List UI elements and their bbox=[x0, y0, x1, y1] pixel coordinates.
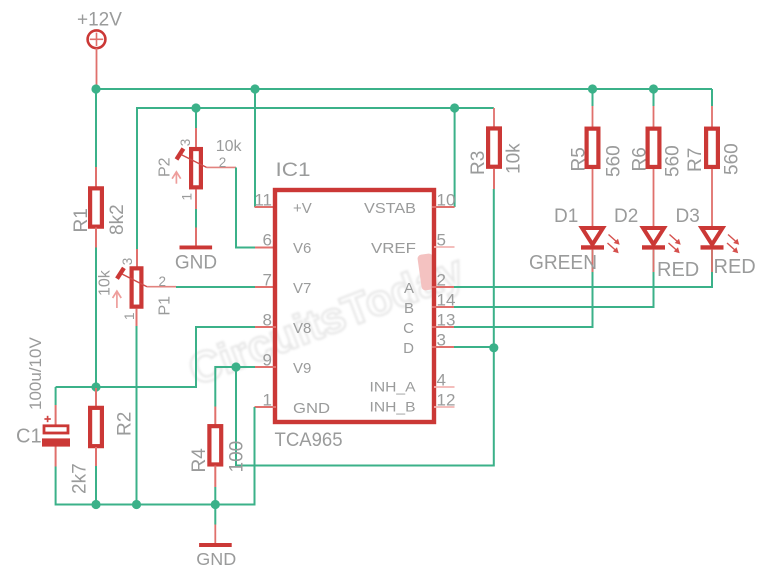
node junction P2 top bbox=[191, 103, 200, 112]
pin stub R4 bottom bbox=[214, 466, 216, 488]
svg-text:560: 560 bbox=[663, 145, 684, 177]
pin stub P2 pin 3 bbox=[195, 128, 197, 148]
svg-text:100: 100 bbox=[227, 441, 248, 473]
wire rail to R1 bbox=[95, 89, 97, 167]
wire V9 to junction bbox=[236, 366, 255, 368]
svg-text:R7: R7 bbox=[685, 148, 706, 172]
node junction rail-R5 bbox=[588, 84, 597, 93]
resistor R6 bbox=[648, 129, 660, 167]
svg-text:D1: D1 bbox=[554, 206, 578, 227]
svg-text:P2: P2 bbox=[157, 157, 174, 177]
wire V9 junction to R4 bbox=[215, 367, 236, 407]
svg-text:1: 1 bbox=[179, 193, 194, 201]
svg-text:D: D bbox=[403, 340, 414, 357]
svg-text:A: A bbox=[404, 280, 414, 297]
svg-text:R4: R4 bbox=[189, 448, 210, 473]
svg-text:+12V: +12V bbox=[77, 9, 122, 30]
svg-text:V7: V7 bbox=[293, 280, 311, 297]
svg-text:VREF: VREF bbox=[371, 240, 416, 257]
wire D2 cathode down bbox=[653, 250, 655, 308]
svg-text:R5: R5 bbox=[569, 147, 590, 171]
svg-text:INH_B: INH_B bbox=[370, 399, 416, 415]
potentiometer P1 bbox=[132, 268, 142, 306]
ground symbol bottom bbox=[199, 543, 232, 547]
potentiometer P2 bbox=[191, 149, 201, 187]
node junction rail-R1 bbox=[91, 84, 100, 93]
pin stub IC V9 pin 9 bbox=[255, 366, 276, 368]
pin stub INH_A pin 4 (n.c.) bbox=[434, 386, 455, 388]
pin stub R4 top bbox=[214, 407, 216, 426]
svg-text:R6: R6 bbox=[630, 147, 651, 171]
LED D2 bbox=[643, 228, 664, 245]
svg-text:B: B bbox=[404, 300, 414, 317]
wire +12V rail bbox=[95, 88, 712, 90]
svg-text:10k: 10k bbox=[216, 138, 243, 155]
resistor R1 bbox=[90, 188, 102, 226]
node junction rail-+V bbox=[250, 84, 259, 93]
svg-text:TCA965: TCA965 bbox=[275, 430, 343, 451]
svg-text:560: 560 bbox=[604, 145, 625, 177]
wire R2 to ground rail bbox=[95, 466, 97, 505]
wire +12V stem bbox=[96, 48, 98, 89]
pin stub IC A pin 2 bbox=[432, 286, 454, 288]
wire A net to D3 bbox=[454, 250, 712, 287]
svg-text:1: 1 bbox=[122, 312, 137, 320]
svg-text:GND: GND bbox=[196, 549, 236, 569]
svg-text:R2: R2 bbox=[115, 412, 136, 436]
svg-text:P1: P1 bbox=[157, 296, 174, 316]
pin stub R6 top bbox=[653, 106, 655, 127]
pin stub P1 pin 3 bbox=[136, 249, 138, 267]
svg-text:INH_A: INH_A bbox=[370, 379, 417, 395]
node junction rail-P1 bbox=[132, 500, 141, 509]
resistor R4 bbox=[209, 426, 221, 464]
svg-text:2k7: 2k7 bbox=[70, 463, 91, 494]
wire C1 bottom to rail bbox=[55, 467, 57, 506]
wire B net to D2 bbox=[454, 250, 654, 307]
node junction V9 bbox=[231, 362, 240, 371]
wire R7 to D3 bbox=[711, 169, 713, 228]
wire D to junction bbox=[454, 346, 494, 348]
svg-text:R1: R1 bbox=[71, 208, 92, 232]
svg-text:6: 6 bbox=[263, 231, 272, 250]
power +12V supply symbol bbox=[88, 30, 106, 48]
pin stub C1 top bbox=[55, 405, 57, 425]
resistor R2 bbox=[90, 408, 102, 446]
pin stub VREF pin 5 (n.c.) bbox=[434, 246, 455, 248]
pin stub IC D pin 3 bbox=[432, 346, 454, 348]
wire +V net bbox=[254, 89, 256, 207]
wire VSTAB rail bbox=[137, 107, 494, 109]
LED D3 bbox=[702, 228, 723, 245]
svg-text:100u/10V: 100u/10V bbox=[26, 337, 45, 410]
svg-text:GND: GND bbox=[175, 252, 217, 273]
pin stub P1 pin 1 bbox=[136, 309, 138, 327]
capacitor C1 (polarized) bbox=[42, 416, 70, 447]
svg-text:D3: D3 bbox=[676, 206, 700, 227]
svg-text:D2: D2 bbox=[614, 206, 638, 227]
svg-text:8k2: 8k2 bbox=[107, 204, 128, 235]
svg-text:RED: RED bbox=[657, 259, 699, 281]
wire R6 to D2 bbox=[653, 169, 655, 228]
svg-text:VSTAB: VSTAB bbox=[364, 200, 416, 217]
pin stub ground symbol bbox=[214, 525, 216, 544]
svg-text:+V: +V bbox=[293, 200, 312, 217]
wire ground rail bbox=[56, 504, 216, 506]
svg-text:R3: R3 bbox=[468, 151, 489, 175]
pin stub IC V7 pin 7 bbox=[255, 286, 276, 288]
wire V9 down-around to D node bbox=[236, 348, 494, 466]
pin stub R7 top bbox=[711, 106, 713, 127]
pin stub IC V6 pin 6 bbox=[255, 247, 276, 249]
node junction rail-R2 bbox=[91, 500, 100, 509]
wire VSTAB down to pin 10 bbox=[454, 108, 456, 207]
pin stub R2 top bbox=[95, 388, 97, 407]
svg-text:10k: 10k bbox=[504, 143, 525, 174]
svg-text:V6: V6 bbox=[293, 240, 311, 257]
svg-text:V9: V9 bbox=[293, 360, 311, 377]
wire R3 top stub bbox=[493, 108, 495, 127]
wire P2 wiper to V6 bbox=[236, 168, 255, 248]
wire D3 cathode down bbox=[711, 250, 713, 288]
wire R4 to ground rail bbox=[214, 487, 216, 505]
svg-text:7: 7 bbox=[263, 271, 272, 290]
svg-text:3: 3 bbox=[120, 258, 135, 266]
pin stub GND symbol top bbox=[195, 228, 197, 247]
svg-text:C1: C1 bbox=[16, 426, 42, 448]
wire GND pin to ground rail bbox=[215, 407, 254, 505]
ground symbol under P2 bbox=[180, 245, 213, 249]
svg-text:3: 3 bbox=[178, 139, 193, 147]
wire P2 top net bbox=[195, 107, 197, 128]
svg-text:C: C bbox=[403, 320, 414, 337]
pin stub R1 top bbox=[95, 167, 97, 188]
svg-text:GREEN: GREEN bbox=[529, 252, 597, 274]
wire rail to R6 bbox=[653, 89, 655, 106]
wire V8 net to C1 node bbox=[56, 327, 255, 387]
wire R3 to D junction bbox=[493, 189, 495, 348]
svg-text:IC1: IC1 bbox=[276, 160, 311, 181]
wire R1 to node A bbox=[95, 248, 97, 388]
wire R5 to D1 bbox=[592, 169, 594, 228]
node junction rail-R6 bbox=[649, 84, 658, 93]
svg-text:V8: V8 bbox=[293, 320, 311, 337]
node junction rail-R4-GND bbox=[211, 500, 220, 509]
node junction R1-R2-C1-V8 bbox=[91, 382, 100, 391]
wire VSTAB rail to P1 top bbox=[136, 107, 138, 249]
pin stub R3 bottom bbox=[493, 169, 495, 189]
svg-text:RED: RED bbox=[714, 256, 756, 278]
wire P1 to ground rail bbox=[136, 326, 138, 505]
resistor R7 bbox=[706, 129, 718, 167]
wire D1 cathode down bbox=[592, 250, 594, 328]
svg-text:GND: GND bbox=[293, 400, 330, 417]
pin stub R2 bottom bbox=[95, 447, 97, 466]
pin stub IC B pin 14 bbox=[432, 306, 454, 308]
wire P1 wiper to V7 bbox=[176, 286, 255, 288]
pin stub IC C pin 13 bbox=[432, 326, 454, 328]
pin stub IC +V pin 11 bbox=[255, 206, 277, 208]
resistor R5 bbox=[587, 129, 599, 167]
pin stub P2 pin 1 bbox=[195, 190, 197, 210]
wire C net to D1 bbox=[454, 250, 593, 327]
op-amp comparator IC1 TCA965 body bbox=[275, 190, 434, 422]
pin stub IC V8 pin 8 bbox=[255, 326, 276, 328]
svg-text:2: 2 bbox=[219, 155, 227, 170]
pin stub IC GND pin 1 bbox=[255, 406, 277, 408]
resistor R3 bbox=[488, 128, 500, 166]
wire C1 top drop bbox=[55, 387, 57, 405]
pin stub R1 bottom bbox=[95, 228, 97, 248]
node junction VSTAB-R3 bbox=[450, 103, 459, 112]
wire rail to R5 bbox=[592, 89, 594, 106]
pin stub C1 bottom bbox=[55, 447, 57, 467]
pin stub VSTAB pin 10 bbox=[432, 206, 455, 208]
pin stub R5 top bbox=[592, 106, 594, 127]
svg-text:11: 11 bbox=[254, 191, 272, 210]
svg-text:10k: 10k bbox=[97, 269, 114, 296]
svg-text:2: 2 bbox=[159, 274, 167, 289]
wire P2 to GND bbox=[195, 209, 197, 228]
LED D1 bbox=[582, 228, 603, 245]
wire ground stem bbox=[214, 505, 216, 525]
node junction D-R3 bbox=[489, 343, 498, 352]
svg-text:560: 560 bbox=[722, 143, 743, 175]
pin stub INH_B pin 12 (n.c.) bbox=[434, 406, 455, 408]
wire rail to R7 bbox=[711, 89, 713, 106]
